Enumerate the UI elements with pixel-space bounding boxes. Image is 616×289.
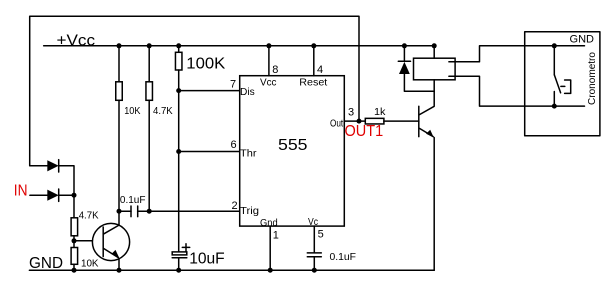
svg-text:Vc: Vc	[308, 216, 318, 228]
svg-text:8: 8	[272, 64, 278, 76]
Cronometro box	[525, 32, 600, 136]
relay K1 coil	[414, 46, 456, 92]
svg-text:Out: Out	[330, 117, 343, 129]
node OUT1	[357, 119, 362, 124]
wire feedback from OUT1 node up over the top and down left side to diode D1 anode	[30, 16, 359, 166]
svg-text:Gnd: Gnd	[260, 217, 278, 229]
svg-text:10uF: 10uF	[189, 251, 225, 268]
svg-text:Reset: Reset	[299, 77, 327, 89]
resistor R5 4.7K (base divider upper)	[71, 218, 78, 248]
wire IN input	[30, 194, 47, 196]
diode D2 (IN, pointing right)	[47, 189, 58, 201]
node Vcc dots	[117, 43, 437, 48]
svg-text:3: 3	[348, 107, 354, 119]
svg-text:GND: GND	[29, 255, 63, 272]
svg-text:GND: GND	[570, 33, 595, 45]
pin 8 Vcc wire	[268, 46, 270, 76]
svg-text:0.1uF: 0.1uF	[330, 251, 357, 263]
svg-text:4.7K: 4.7K	[79, 210, 99, 222]
node Thr	[176, 149, 181, 154]
node base divider	[72, 238, 77, 243]
node switch bottom	[552, 104, 557, 109]
transistor Q2 (relay driver, NPN)	[419, 91, 434, 270]
resistor R2 4.7K (pull-up to trigger cap)	[146, 46, 153, 211]
wire Dis pin7	[179, 90, 240, 92]
wire Thr pin6	[179, 151, 240, 153]
wire pin 1 to ground	[269, 226, 271, 270]
wire D2 cathode to junction	[59, 194, 74, 196]
diode D1 (top, pointing right)	[47, 160, 58, 172]
svg-text:4.7K: 4.7K	[153, 105, 173, 117]
wire pin 5 to cap	[313, 226, 315, 252]
svg-text:5: 5	[318, 229, 324, 241]
svg-text:1k: 1k	[374, 106, 386, 118]
node Dis	[176, 88, 181, 93]
op-amp U1 555 box	[240, 76, 345, 226]
node cap left	[117, 209, 122, 214]
resistor R1 10K (pull-up to Q1 collector)	[116, 46, 123, 225]
svg-text:IN: IN	[14, 183, 28, 200]
capacitor C3 0.1uF (pin 5)	[307, 253, 321, 270]
svg-text:2: 2	[232, 200, 238, 212]
svg-text:Dis: Dis	[240, 86, 255, 98]
svg-text:0.1uF: 0.1uF	[120, 194, 146, 206]
wire Trig pin2	[138, 210, 240, 212]
resistor R4 1k (base)	[365, 118, 419, 124]
node cap right	[147, 209, 152, 214]
wire Q1 base	[74, 240, 103, 242]
wire ground rail	[29, 269, 434, 271]
resistor R3 100K (timing)	[175, 46, 182, 252]
node switch top	[552, 43, 557, 48]
wire relay contact bottom to switch	[449, 76, 585, 106]
wire relay contact top to cronometro GND	[449, 46, 585, 62]
capacitor C2 10uF electrolytic	[172, 244, 190, 271]
diode D3 flyback across relay coil	[398, 46, 434, 92]
wire pin 3 out	[344, 120, 365, 122]
switch S1 (cronometro pushbutton)	[554, 46, 570, 106]
resistor R6 10K (base divider lower)	[71, 248, 78, 271]
svg-text:+Vcc: +Vcc	[57, 33, 96, 50]
svg-text:1: 1	[273, 230, 279, 242]
node junction diodes	[72, 193, 77, 198]
transistor Q1 (input, NPN with circle)	[92, 223, 129, 270]
svg-text:4: 4	[317, 64, 323, 76]
svg-text:10K: 10K	[124, 105, 140, 117]
svg-text:Vcc: Vcc	[260, 77, 277, 89]
capacitor C1 0.1uF (trigger coupling)	[119, 206, 138, 217]
svg-text:Thr: Thr	[240, 147, 257, 159]
svg-text:7: 7	[230, 79, 236, 91]
wire +Vcc rail	[44, 45, 435, 47]
pin 4 Reset wire	[313, 46, 315, 76]
node gnd dots	[72, 268, 317, 273]
svg-text:Cronometro: Cronometro	[586, 52, 598, 105]
svg-text:OUT1: OUT1	[345, 123, 384, 140]
svg-text:10K: 10K	[81, 257, 99, 269]
svg-text:Trig: Trig	[240, 205, 259, 217]
svg-text:6: 6	[231, 139, 237, 151]
svg-text:100K: 100K	[186, 56, 225, 73]
wire D1 cathode to right corner and down to 4.7K	[59, 166, 74, 218]
svg-text:555: 555	[278, 137, 308, 154]
